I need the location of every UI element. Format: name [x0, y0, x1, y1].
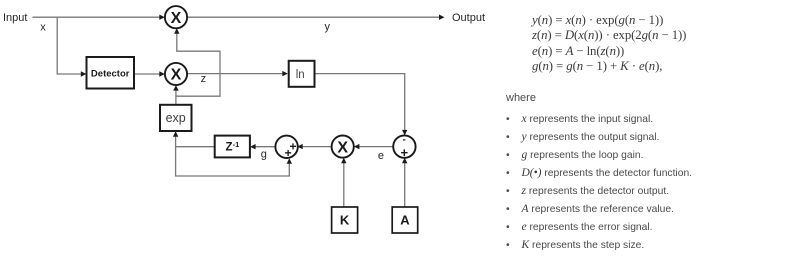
svg-text:K: K — [340, 212, 350, 227]
wire: detector to multiplier U2 — [134, 73, 160, 75]
wire: ln output right then down to summer S2 — [315, 74, 404, 131]
wire: exp output up with branch node — [175, 90, 177, 104]
svg-text:Output: Output — [452, 12, 485, 24]
wire: feedback g(n-1) down and right into summer S1 — [176, 147, 290, 176]
arrowhead up into U2 from exp — [173, 85, 178, 91]
svg-text:A: A — [400, 212, 410, 227]
svg-text:X: X — [337, 139, 348, 156]
ln box — [289, 61, 315, 87]
bullet 3 — [506, 149, 643, 161]
wire: summer S2 to multiplier U3 — [359, 146, 394, 148]
svg-text:e: e — [378, 150, 384, 162]
svg-text:+: + — [401, 145, 409, 160]
arrowhead down into summer S2 — [402, 130, 407, 136]
arrowhead up into S1 from feedback — [287, 158, 292, 164]
z^-1 box — [215, 136, 250, 158]
arrowhead up into exp box — [173, 131, 178, 137]
arrowhead left into z^-1 box — [250, 144, 256, 149]
equation line 1 — [532, 13, 663, 28]
svg-text:Detector: Detector — [91, 68, 130, 79]
wire: K box up to multiplier U3 — [343, 163, 345, 207]
svg-text:g: g — [261, 148, 267, 160]
detector box — [87, 57, 135, 89]
wire: z from U2 to ln box — [187, 73, 283, 75]
wire: summer S1 to z^-1 box — [255, 146, 275, 148]
wire: A box up to summer S2 — [404, 163, 406, 207]
arrowhead up into U3 from K — [341, 158, 346, 164]
wire: z^-1 output left then up into exp — [176, 137, 215, 147]
arrowhead at Output — [439, 15, 445, 20]
arrowhead into detector — [81, 71, 87, 76]
svg-text:ln: ln — [296, 69, 305, 81]
wire: multiplier U3 to summer S1 — [303, 146, 332, 148]
arrowhead left into S1 from U3 — [297, 144, 303, 149]
svg-text:y: y — [325, 21, 331, 33]
summer S1 — [275, 136, 297, 161]
equation line 4 — [532, 59, 662, 74]
wire: branch to upper multiplier chain — [176, 34, 220, 97]
exp box — [160, 105, 192, 131]
equation line 3 — [532, 44, 624, 59]
svg-text:X: X — [171, 10, 182, 27]
svg-text:X: X — [171, 67, 182, 84]
svg-text:+: + — [285, 146, 292, 160]
svg-text:x: x — [40, 21, 46, 33]
wire: output line from U1 to Output — [187, 16, 439, 18]
bullet 1 — [506, 113, 653, 125]
svg-text:-: - — [403, 134, 406, 145]
bullet 5 — [506, 185, 669, 197]
bullet 4 — [506, 167, 692, 179]
arrowhead into U1 left — [159, 15, 165, 20]
svg-text:exp: exp — [166, 111, 186, 125]
arrowhead left into U3 from S2 — [354, 144, 360, 149]
multiplier U2 — [165, 63, 187, 85]
bullet 8 — [506, 239, 644, 251]
svg-text:Input: Input — [3, 12, 27, 24]
bullet 2 — [506, 131, 659, 143]
equation line 2 — [532, 28, 686, 43]
svg-text:z: z — [201, 73, 207, 85]
A box — [392, 207, 418, 233]
arrowhead into U2 left — [159, 71, 165, 76]
where label — [506, 92, 536, 104]
bullet 7 — [506, 221, 653, 233]
block diagram SVG — [0, 0, 500, 275]
wire: input line to multiplier U1 — [33, 16, 160, 18]
multiplier U3 — [332, 136, 354, 158]
arrowhead into ln box — [282, 71, 288, 76]
summer S2 — [393, 134, 415, 160]
arrowhead up into U1 from branch — [174, 28, 179, 34]
bullet 6 — [506, 203, 674, 215]
wire: branch down from input to detector — [57, 17, 81, 74]
K box — [332, 207, 358, 233]
multiplier U1 — [165, 6, 187, 28]
arrowhead up into summer S2 from A — [402, 158, 407, 164]
